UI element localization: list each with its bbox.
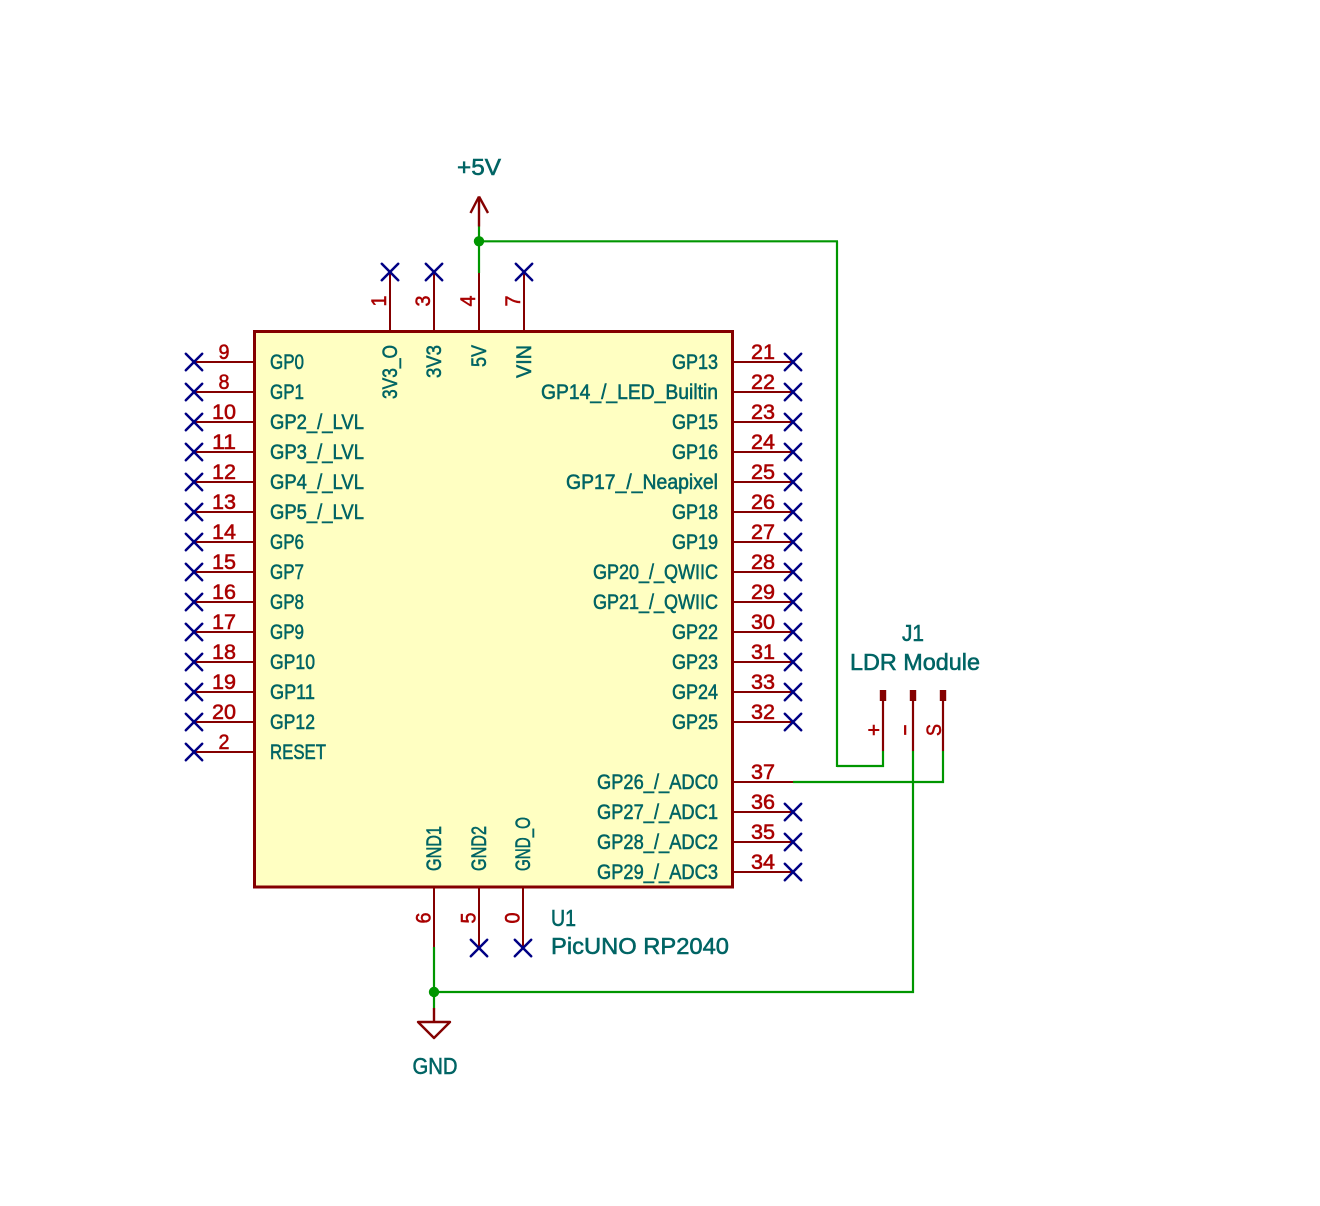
no-connect X on pin 22: [785, 384, 801, 400]
svg-text:3V3_O: 3V3_O: [378, 345, 402, 399]
U1 pin 24 (GP16) right: [672, 430, 793, 464]
U1 pin 2 (RESET) left: [194, 730, 326, 764]
no-connect X on pin 26: [785, 504, 801, 520]
svg-text:LDR Module: LDR Module: [850, 649, 980, 675]
no-connect X on pin 17: [186, 624, 202, 640]
svg-text:6: 6: [412, 912, 436, 923]
U1 pin 36 (GP27_/_ADC1) right: [597, 790, 793, 824]
svg-text:GND: GND: [413, 1053, 458, 1079]
svg-text:15: 15: [212, 550, 236, 574]
svg-text:GP20_/_QWIIC: GP20_/_QWIIC: [593, 560, 718, 584]
U1 pin 4 (5V) top: [456, 272, 491, 367]
U1 pin 5 (GND2) bottom: [457, 826, 492, 948]
U1 pin 32 (GP25) right: [672, 700, 793, 734]
U1 pin 1 (3V3_O) top: [367, 272, 402, 399]
no-connect X on pin 9: [186, 354, 202, 370]
svg-text:GP13: GP13: [672, 350, 718, 374]
svg-text:GP21_/_QWIIC: GP21_/_QWIIC: [593, 590, 718, 614]
svg-text:12: 12: [212, 460, 236, 484]
wire right riser down to J1 area: [836, 241, 838, 767]
no-connect X on pin 11: [186, 444, 202, 460]
no-connect X on pin 30: [785, 624, 801, 640]
no-connect X on pin 20: [186, 714, 202, 730]
no-connect X on pin 36: [785, 804, 801, 820]
svg-text:19: 19: [212, 670, 236, 694]
no-connect X on pin 14: [186, 534, 202, 550]
svg-text:GP15: GP15: [672, 410, 718, 434]
svg-text:34: 34: [751, 850, 775, 874]
svg-text:26: 26: [751, 490, 775, 514]
no-connect X on pin 7: [516, 264, 532, 280]
svg-text:1: 1: [367, 296, 391, 307]
wire GND rail junction to J1 -: [434, 991, 914, 993]
no-connect X on pin 2: [186, 744, 202, 760]
no-connect X on pin 28: [785, 564, 801, 580]
U1 pin 18 (GP10) left: [194, 640, 315, 674]
connector J1 pin S: [922, 690, 946, 751]
wire J1 pin - down to GND rail: [912, 751, 914, 993]
svg-text:GP16: GP16: [672, 440, 718, 464]
svg-text:GND2: GND2: [467, 826, 491, 871]
svg-text:GP1: GP1: [270, 380, 304, 404]
no-connect X on pin 29: [785, 594, 801, 610]
svg-text:GP7: GP7: [270, 560, 304, 584]
wire bottom jog to J1 pin +: [837, 765, 884, 767]
svg-text:32: 32: [751, 700, 775, 724]
svg-text:9: 9: [219, 340, 230, 364]
svg-text:3V3: 3V3: [422, 345, 446, 378]
svg-text:3: 3: [411, 295, 435, 306]
U1 pin 12 (GP4_/_LVL) left: [194, 460, 364, 494]
svg-text:GP3_/_LVL: GP3_/_LVL: [270, 440, 364, 464]
U1 pin 11 (GP3_/_LVL) left: [194, 430, 364, 464]
svg-text:RESET: RESET: [270, 740, 326, 764]
svg-text:GP0: GP0: [270, 350, 304, 374]
svg-text:GP25: GP25: [672, 710, 718, 734]
svg-text:GP10: GP10: [270, 650, 315, 674]
wire +5V junction to right riser: [479, 240, 838, 242]
svg-text:GP4_/_LVL: GP4_/_LVL: [270, 470, 364, 494]
U1 pin 17 (GP9) left: [194, 610, 304, 644]
svg-text:GP26_/_ADC0: GP26_/_ADC0: [597, 770, 718, 794]
U1 pin 27 (GP19) right: [672, 520, 793, 554]
svg-text:GP28_/_ADC2: GP28_/_ADC2: [597, 830, 718, 854]
U1 pin 21 (GP13) right: [672, 340, 793, 374]
svg-text:GP22: GP22: [672, 620, 718, 644]
no-connect X on pin 25: [785, 474, 801, 490]
svg-text:GP9: GP9: [270, 620, 304, 644]
no-connect X on pin 19: [186, 684, 202, 700]
svg-text:GP5_/_LVL: GP5_/_LVL: [270, 500, 364, 524]
U1 pin 26 (GP18) right: [672, 490, 793, 524]
wire +5V symbol to pin 4 (5V): [478, 227, 480, 274]
svg-text:13: 13: [212, 490, 236, 514]
no-connect X on pin 13: [186, 504, 202, 520]
svg-text:+: +: [862, 724, 886, 736]
svg-text:17: 17: [212, 610, 236, 634]
svg-text:7: 7: [501, 296, 525, 307]
svg-text:29: 29: [751, 580, 775, 604]
svg-text:20: 20: [212, 700, 236, 724]
no-connect X on pin 15: [186, 564, 202, 580]
junction at +5V branch: [474, 236, 484, 246]
U1 pin 20 (GP12) left: [194, 700, 315, 734]
svg-text:GND_O: GND_O: [511, 817, 535, 871]
power symbol +5V: [457, 154, 502, 227]
no-connect X on pin 18: [186, 654, 202, 670]
svg-text:25: 25: [751, 460, 775, 484]
U1 pin 6 (GND1) bottom: [412, 826, 447, 948]
svg-text:GP2_/_LVL: GP2_/_LVL: [270, 410, 364, 434]
U1 pin 29 (GP21_/_QWIIC) right: [593, 580, 793, 614]
svg-text:S: S: [922, 724, 946, 736]
connector J1 pin -: [892, 690, 916, 751]
junction at GND rail: [429, 987, 439, 997]
svg-text:GP11: GP11: [270, 680, 315, 704]
no-connect X on pin 12: [186, 474, 202, 490]
no-connect X on pin 35: [785, 834, 801, 850]
no-connect X on pin 27: [785, 534, 801, 550]
connector J1 pin +: [862, 690, 886, 751]
svg-text:GP23: GP23: [672, 650, 718, 674]
no-connect X on pin 1: [382, 264, 398, 280]
U1 pin 35 (GP28_/_ADC2) right: [597, 820, 793, 854]
svg-text:36: 36: [751, 790, 775, 814]
U1 pin 37 (GP26_/_ADC0) right: [597, 760, 793, 794]
svg-text:GP8: GP8: [270, 590, 304, 614]
wire GND junction to GND symbol: [433, 992, 435, 1008]
no-connect X on pin 3: [426, 264, 442, 280]
wire GP26_/_ADC0 to J1 S column: [793, 781, 944, 783]
U1 pin 30 (GP22) right: [672, 610, 793, 644]
U1 pin 33 (GP24) right: [672, 670, 793, 704]
no-connect X on pin 31: [785, 654, 801, 670]
svg-text:J1: J1: [902, 620, 924, 646]
U1 pin 3 (3V3) top: [411, 272, 446, 378]
svg-text:GP19: GP19: [672, 530, 718, 554]
U1 pin 23 (GP15) right: [672, 400, 793, 434]
svg-text:10: 10: [212, 400, 236, 424]
svg-text:18: 18: [212, 640, 236, 664]
U1 pin 8 (GP1) left: [194, 370, 304, 404]
no-connect X on pin 32: [785, 714, 801, 730]
svg-text:PicUNO RP2040: PicUNO RP2040: [551, 933, 729, 959]
ground symbol GND: [413, 1008, 458, 1079]
U1 pin 9 (GP0) left: [194, 340, 304, 374]
U1 pin 34 (GP29_/_ADC3) right: [597, 850, 793, 884]
svg-text:GP27_/_ADC1: GP27_/_ADC1: [597, 800, 718, 824]
U1 pin 10 (GP2_/_LVL) left: [194, 400, 364, 434]
U1 pin 25 (GP17_/_Neapixel) right: [566, 460, 793, 494]
svg-text:GP17_/_Neapixel: GP17_/_Neapixel: [566, 470, 718, 494]
no-connect X on pin 24: [785, 444, 801, 460]
svg-text:5V: 5V: [467, 344, 491, 367]
U1 pin 13 (GP5_/_LVL) left: [194, 490, 364, 524]
svg-text:2: 2: [219, 730, 230, 754]
svg-text:28: 28: [751, 550, 775, 574]
wire GND1 pin to GND junction: [433, 947, 435, 992]
svg-text:23: 23: [751, 400, 775, 424]
svg-text:21: 21: [751, 340, 775, 364]
svg-text:37: 37: [751, 760, 775, 784]
svg-text:27: 27: [751, 520, 775, 544]
svg-text:VIN: VIN: [512, 345, 536, 378]
svg-text:GND1: GND1: [422, 826, 446, 871]
U1 pin 19 (GP11) left: [194, 670, 315, 704]
U1 pin 22 (GP14_/_LED_Builtin) right: [541, 370, 793, 404]
svg-text:-: -: [892, 724, 916, 736]
svg-text:GP6: GP6: [270, 530, 304, 554]
svg-text:U1: U1: [551, 905, 576, 931]
svg-text:5: 5: [457, 912, 481, 923]
svg-text:16: 16: [212, 580, 236, 604]
no-connect X on pin 23: [785, 414, 801, 430]
svg-text:33: 33: [751, 670, 775, 694]
U1 pin 31 (GP23) right: [672, 640, 793, 674]
no-connect X on pin 0: [515, 940, 531, 956]
svg-text:GP14_/_LED_Builtin: GP14_/_LED_Builtin: [541, 380, 718, 404]
no-connect X on pin 10: [186, 414, 202, 430]
wire up into J1 pin +: [882, 751, 884, 767]
svg-text:30: 30: [751, 610, 775, 634]
no-connect X on pin 16: [186, 594, 202, 610]
U1 pin 15 (GP7) left: [194, 550, 304, 584]
svg-text:4: 4: [456, 295, 480, 306]
svg-text:11: 11: [212, 430, 236, 454]
svg-text:24: 24: [751, 430, 775, 454]
svg-text:14: 14: [212, 520, 236, 544]
U1 pin 0 (GND_O) bottom: [501, 817, 536, 948]
IC U1 body (PicUNO RP2040 microcontroller symbol): [255, 332, 733, 888]
svg-text:31: 31: [751, 640, 775, 664]
no-connect X on pin 21: [785, 354, 801, 370]
svg-text:GP18: GP18: [672, 500, 718, 524]
wire up into J1 pin S: [942, 751, 944, 783]
svg-text:GP24: GP24: [672, 680, 718, 704]
no-connect X on pin 34: [785, 864, 801, 880]
svg-text:GP29_/_ADC3: GP29_/_ADC3: [597, 860, 718, 884]
svg-text:35: 35: [751, 820, 775, 844]
svg-text:22: 22: [751, 370, 775, 394]
svg-text:+5V: +5V: [457, 154, 502, 180]
no-connect X on pin 8: [186, 384, 202, 400]
svg-text:GP12: GP12: [270, 710, 315, 734]
no-connect X on pin 33: [785, 684, 801, 700]
U1 pin 14 (GP6) left: [194, 520, 304, 554]
no-connect X on pin 5: [471, 940, 487, 956]
U1 pin 7 (VIN) top: [501, 272, 536, 378]
svg-text:0: 0: [501, 912, 525, 923]
U1 pin 28 (GP20_/_QWIIC) right: [593, 550, 793, 584]
svg-text:8: 8: [219, 370, 230, 394]
U1 pin 16 (GP8) left: [194, 580, 304, 614]
